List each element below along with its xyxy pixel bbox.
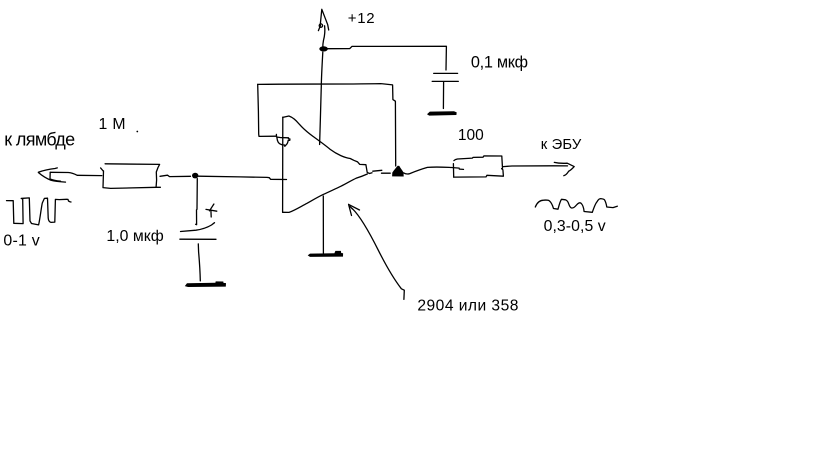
- svg-text:100: 100: [458, 127, 484, 144]
- svg-text:1,0 мкф: 1,0 мкф: [106, 228, 163, 245]
- svg-text:+12: +12: [348, 10, 375, 27]
- svg-text:1 М: 1 М: [99, 116, 126, 133]
- svg-text:0-1 v: 0-1 v: [3, 232, 39, 249]
- svg-text:2904 или 358: 2904 или 358: [417, 297, 518, 314]
- svg-text:0,3-0,5 v: 0,3-0,5 v: [544, 218, 606, 235]
- svg-text:к ЭБУ: к ЭБУ: [541, 137, 582, 153]
- svg-text:0,1 мкф: 0,1 мкф: [471, 53, 528, 71]
- svg-text:к лямбде: к лямбде: [4, 130, 75, 150]
